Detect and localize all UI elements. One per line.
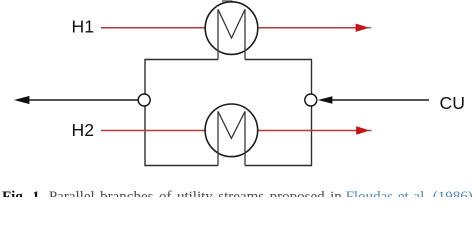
wire: top bus left segment	[145, 59, 218, 61]
mixer M2 coil (M shape)	[218, 111, 245, 165]
svg-text:H1: H1	[72, 17, 95, 37]
splitter node right	[305, 94, 317, 106]
arrowhead: CU inlet pointing left	[318, 96, 333, 104]
wire: bottom bus left segment	[145, 165, 218, 167]
svg-text:H2: H2	[72, 120, 95, 140]
wire: bottom bus right segment	[245, 165, 312, 167]
arrowhead: H1 outlet red	[356, 24, 370, 32]
mixer M1 coil (M shape)	[218, 9, 245, 59]
arrowhead: H2 outlet red	[356, 126, 370, 134]
arrowhead: utility outlet pointing left	[14, 96, 30, 104]
mixer M2 circle (bottom)	[205, 104, 258, 157]
wire: top bus right segment	[245, 59, 312, 61]
mixer M1 circle (top)	[205, 2, 258, 55]
wire: CU inlet line (right)	[330, 99, 429, 101]
svg-text:CU: CU	[440, 93, 465, 113]
gray stub at H1 arrow tip	[368, 27, 372, 29]
gray artifact stub above top mixer	[222, 0, 233, 2]
gray stub at H2 arrow tip	[368, 130, 372, 132]
stream H1 red line left	[101, 27, 205, 29]
wire: right vertical upper	[311, 59, 313, 95]
stream H2 red line right	[258, 130, 357, 132]
wire: left vertical upper	[144, 59, 146, 95]
stream H1 red line right	[258, 27, 356, 29]
wire: right vertical lower	[311, 106, 313, 166]
stream H2 red line left	[101, 130, 205, 132]
wire: utility outlet line (left)	[29, 99, 140, 101]
splitter node left	[138, 94, 150, 106]
caption: Fig. 1	[2, 190, 342, 205]
wire: left vertical lower	[144, 106, 146, 166]
